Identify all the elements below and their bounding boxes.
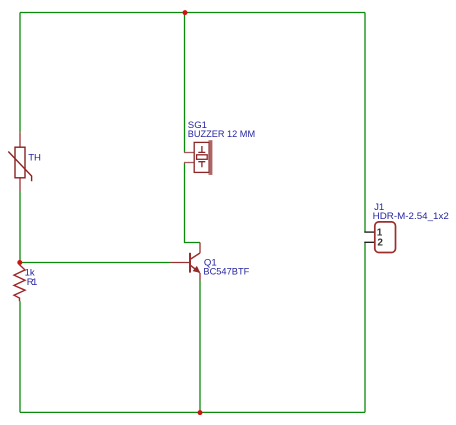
thermistor TH diagonal stroke [8, 152, 31, 182]
wire buzzer pin2 to transistor collector jog [185, 163, 201, 243]
wire base net (R1 node to Q1 base) [20, 262, 171, 264]
buzzer SG1 body outline [194, 142, 209, 172]
svg-text:TH: TH [28, 153, 41, 164]
transistor Q1 collector pin [199, 243, 201, 254]
buzzer SG1 right bar bottom flange [209, 173, 210, 175]
transistor Q1 base bar [189, 253, 191, 273]
svg-text:BUZZER 12 MM: BUZZER 12 MM [188, 129, 255, 140]
junction dot top node [183, 10, 188, 15]
wire emitter to bottom [199, 281, 201, 413]
junction dot bottom node [198, 410, 203, 415]
wire bottom horizontal net GND [20, 411, 365, 413]
svg-text:BC547BTF: BC547BTF [203, 267, 249, 278]
svg-text:R1: R1 [27, 277, 38, 288]
transistor Q1 emitter pin [199, 273, 201, 281]
buzzer SG1 bottom electrode [198, 162, 205, 168]
buzzer SG1 pin 1 [184, 152, 194, 154]
junction dot base node [17, 260, 22, 265]
wire center vertical (top to buzzer pin1) [184, 13, 186, 153]
transistor Q1 collector diagonal [190, 253, 200, 259]
connector J1 pin 2 lead [364, 241, 375, 243]
buzzer SG1 pin 2 [184, 162, 194, 164]
svg-text:HDR-M-2.54_1x2: HDR-M-2.54_1x2 [373, 211, 449, 222]
svg-text:2: 2 [377, 238, 383, 249]
wire left vertical upper (top to TH) [19, 13, 21, 133]
transistor Q1 base pin [171, 262, 190, 264]
wire right vertical lower (J1 pin2 to bottom) [364, 242, 366, 412]
transistor Q1 emitter diagonal [191, 265, 200, 272]
buzzer SG1 piezo disc [197, 155, 208, 160]
thermistor TH pin bottom [19, 178, 21, 191]
wire right vertical upper (top to J1 pin1) [364, 13, 366, 233]
buzzer SG1 right bar [210, 140, 213, 175]
wire top horizontal net VCC [20, 12, 365, 14]
thermistor TH pin top [19, 132, 21, 147]
connector J1 body [375, 222, 396, 253]
buzzer SG1 right bar top flange [209, 140, 210, 142]
buzzer SG1 top electrode [198, 146, 205, 152]
wire left vertical middle (TH to R1 node) [19, 191, 21, 263]
resistor R1 zigzag [14, 263, 25, 302]
connector J1 pin 1 lead [364, 231, 375, 233]
thermistor TH body [15, 147, 25, 178]
transistor Q1 emitter arrow [193, 266, 201, 273]
wire left vertical lower (R1 to bottom) [19, 301, 21, 412]
